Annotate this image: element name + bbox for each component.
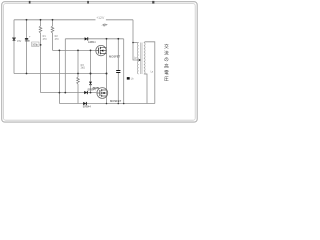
svg-text:MOSFET: MOSFET [110,99,122,103]
svg-text:ERB44: ERB44 [88,42,96,44]
svg-text:2kΩ: 2kΩ [81,67,86,70]
svg-text:15V: 15V [17,40,22,43]
svg-text:470: 470 [55,38,60,41]
svg-text:交: 交 [164,43,169,50]
svg-text:470: 470 [43,38,48,41]
svg-text:ERB44: ERB44 [83,106,92,109]
svg-text:100μ: 100μ [32,42,38,46]
svg-text:バッテリー: バッテリー [102,23,109,27]
svg-text:の: の [164,57,169,62]
svg-text:高: 高 [164,63,169,70]
svg-text:MOSFET: MOSFET [109,55,121,59]
svg-text:+12V: +12V [96,16,105,20]
svg-text:流: 流 [164,50,169,57]
